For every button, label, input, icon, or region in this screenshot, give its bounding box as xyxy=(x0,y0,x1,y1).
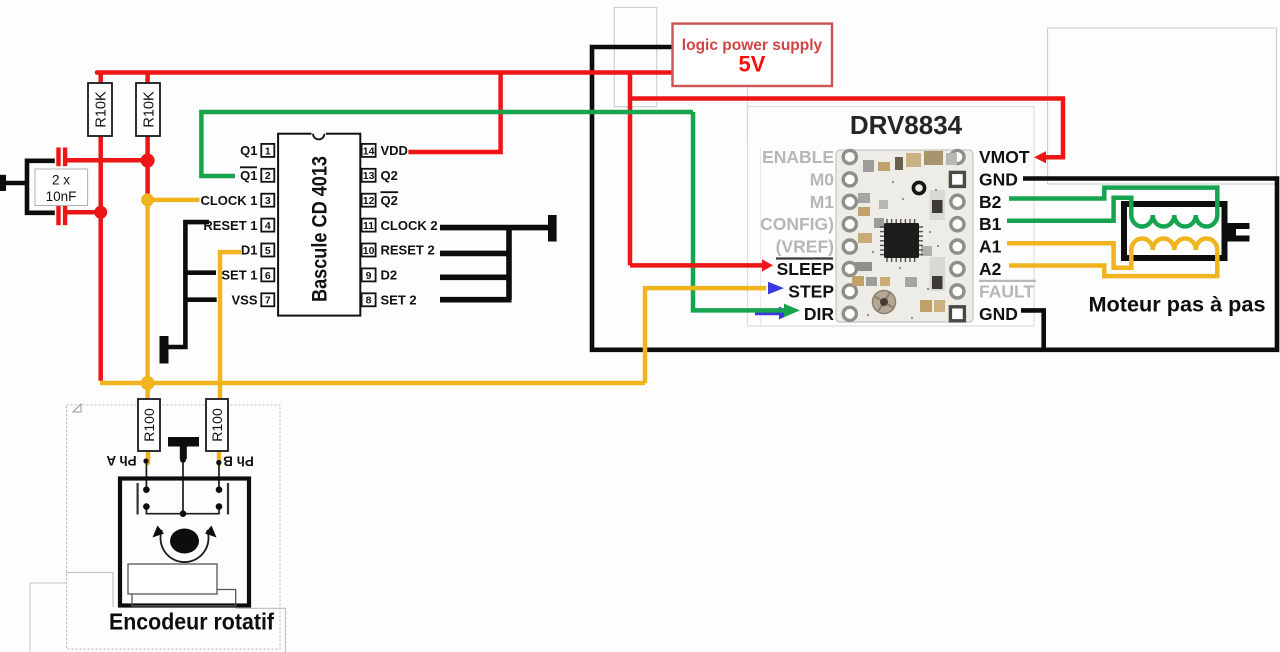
svg-text:A1: A1 xyxy=(979,237,1002,257)
svg-text:Q1: Q1 xyxy=(240,168,257,183)
svg-text:Ph B: Ph B xyxy=(223,454,254,469)
svg-text:Q2: Q2 xyxy=(381,193,398,208)
svg-text:A2: A2 xyxy=(979,259,1002,279)
svg-text:SET 1: SET 1 xyxy=(221,268,257,283)
svg-text:13: 13 xyxy=(363,170,375,182)
svg-text:RESET 2: RESET 2 xyxy=(381,243,435,258)
svg-text:VDD: VDD xyxy=(381,143,408,158)
svg-text:RESET 1: RESET 1 xyxy=(203,218,257,233)
svg-text:M1: M1 xyxy=(810,192,835,212)
svg-text:R10K: R10K xyxy=(142,91,158,128)
svg-text:7: 7 xyxy=(265,295,271,307)
svg-text:14: 14 xyxy=(363,145,375,157)
svg-text:9: 9 xyxy=(366,270,372,282)
svg-text:DIR: DIR xyxy=(804,304,835,324)
svg-text:SET 2: SET 2 xyxy=(381,293,417,308)
svg-text:GND: GND xyxy=(979,169,1018,189)
svg-text:VMOT: VMOT xyxy=(979,147,1030,167)
svg-text:D1: D1 xyxy=(241,243,258,258)
svg-text:Q1: Q1 xyxy=(240,143,257,158)
svg-text:5: 5 xyxy=(265,245,271,257)
svg-text:STEP: STEP xyxy=(788,281,834,301)
svg-text:1: 1 xyxy=(265,145,271,157)
svg-text:(VREF): (VREF) xyxy=(776,237,834,257)
svg-text:Q2: Q2 xyxy=(381,168,398,183)
svg-text:Moteur pas à pas: Moteur pas à pas xyxy=(1089,293,1266,317)
svg-text:10nF: 10nF xyxy=(46,189,77,204)
svg-text:Bascule CD 4013: Bascule CD 4013 xyxy=(309,156,332,302)
svg-text:Encodeur rotatif: Encodeur rotatif xyxy=(109,609,274,635)
svg-text:VSS: VSS xyxy=(231,293,257,308)
svg-text:B1: B1 xyxy=(979,214,1002,234)
svg-text:11: 11 xyxy=(363,220,374,232)
svg-text:CONFIG): CONFIG) xyxy=(760,214,834,234)
svg-text:8: 8 xyxy=(366,295,372,307)
svg-text:R100: R100 xyxy=(141,408,157,442)
svg-text:R10K: R10K xyxy=(94,91,110,128)
svg-text:CLOCK 1: CLOCK 1 xyxy=(200,193,257,208)
svg-text:2 x: 2 x xyxy=(52,173,70,188)
svg-text:3: 3 xyxy=(265,195,271,207)
svg-text:10: 10 xyxy=(363,245,375,257)
svg-text:CLOCK 2: CLOCK 2 xyxy=(381,218,438,233)
svg-text:Ph A: Ph A xyxy=(106,453,137,468)
svg-text:5V: 5V xyxy=(739,52,766,77)
svg-text:FAULT: FAULT xyxy=(979,281,1034,301)
svg-text:4: 4 xyxy=(265,220,271,232)
svg-text:12: 12 xyxy=(363,195,375,207)
svg-text:M0: M0 xyxy=(810,169,835,189)
svg-text:GND: GND xyxy=(979,304,1018,324)
svg-text:B2: B2 xyxy=(979,192,1002,212)
svg-text:SLEEP: SLEEP xyxy=(777,259,835,279)
svg-text:D2: D2 xyxy=(381,268,398,283)
svg-text:R100: R100 xyxy=(209,408,225,442)
svg-text:2: 2 xyxy=(265,170,271,182)
svg-text:6: 6 xyxy=(265,270,271,282)
svg-text:DRV8834: DRV8834 xyxy=(850,110,963,140)
svg-text:ENABLE: ENABLE xyxy=(762,147,834,167)
